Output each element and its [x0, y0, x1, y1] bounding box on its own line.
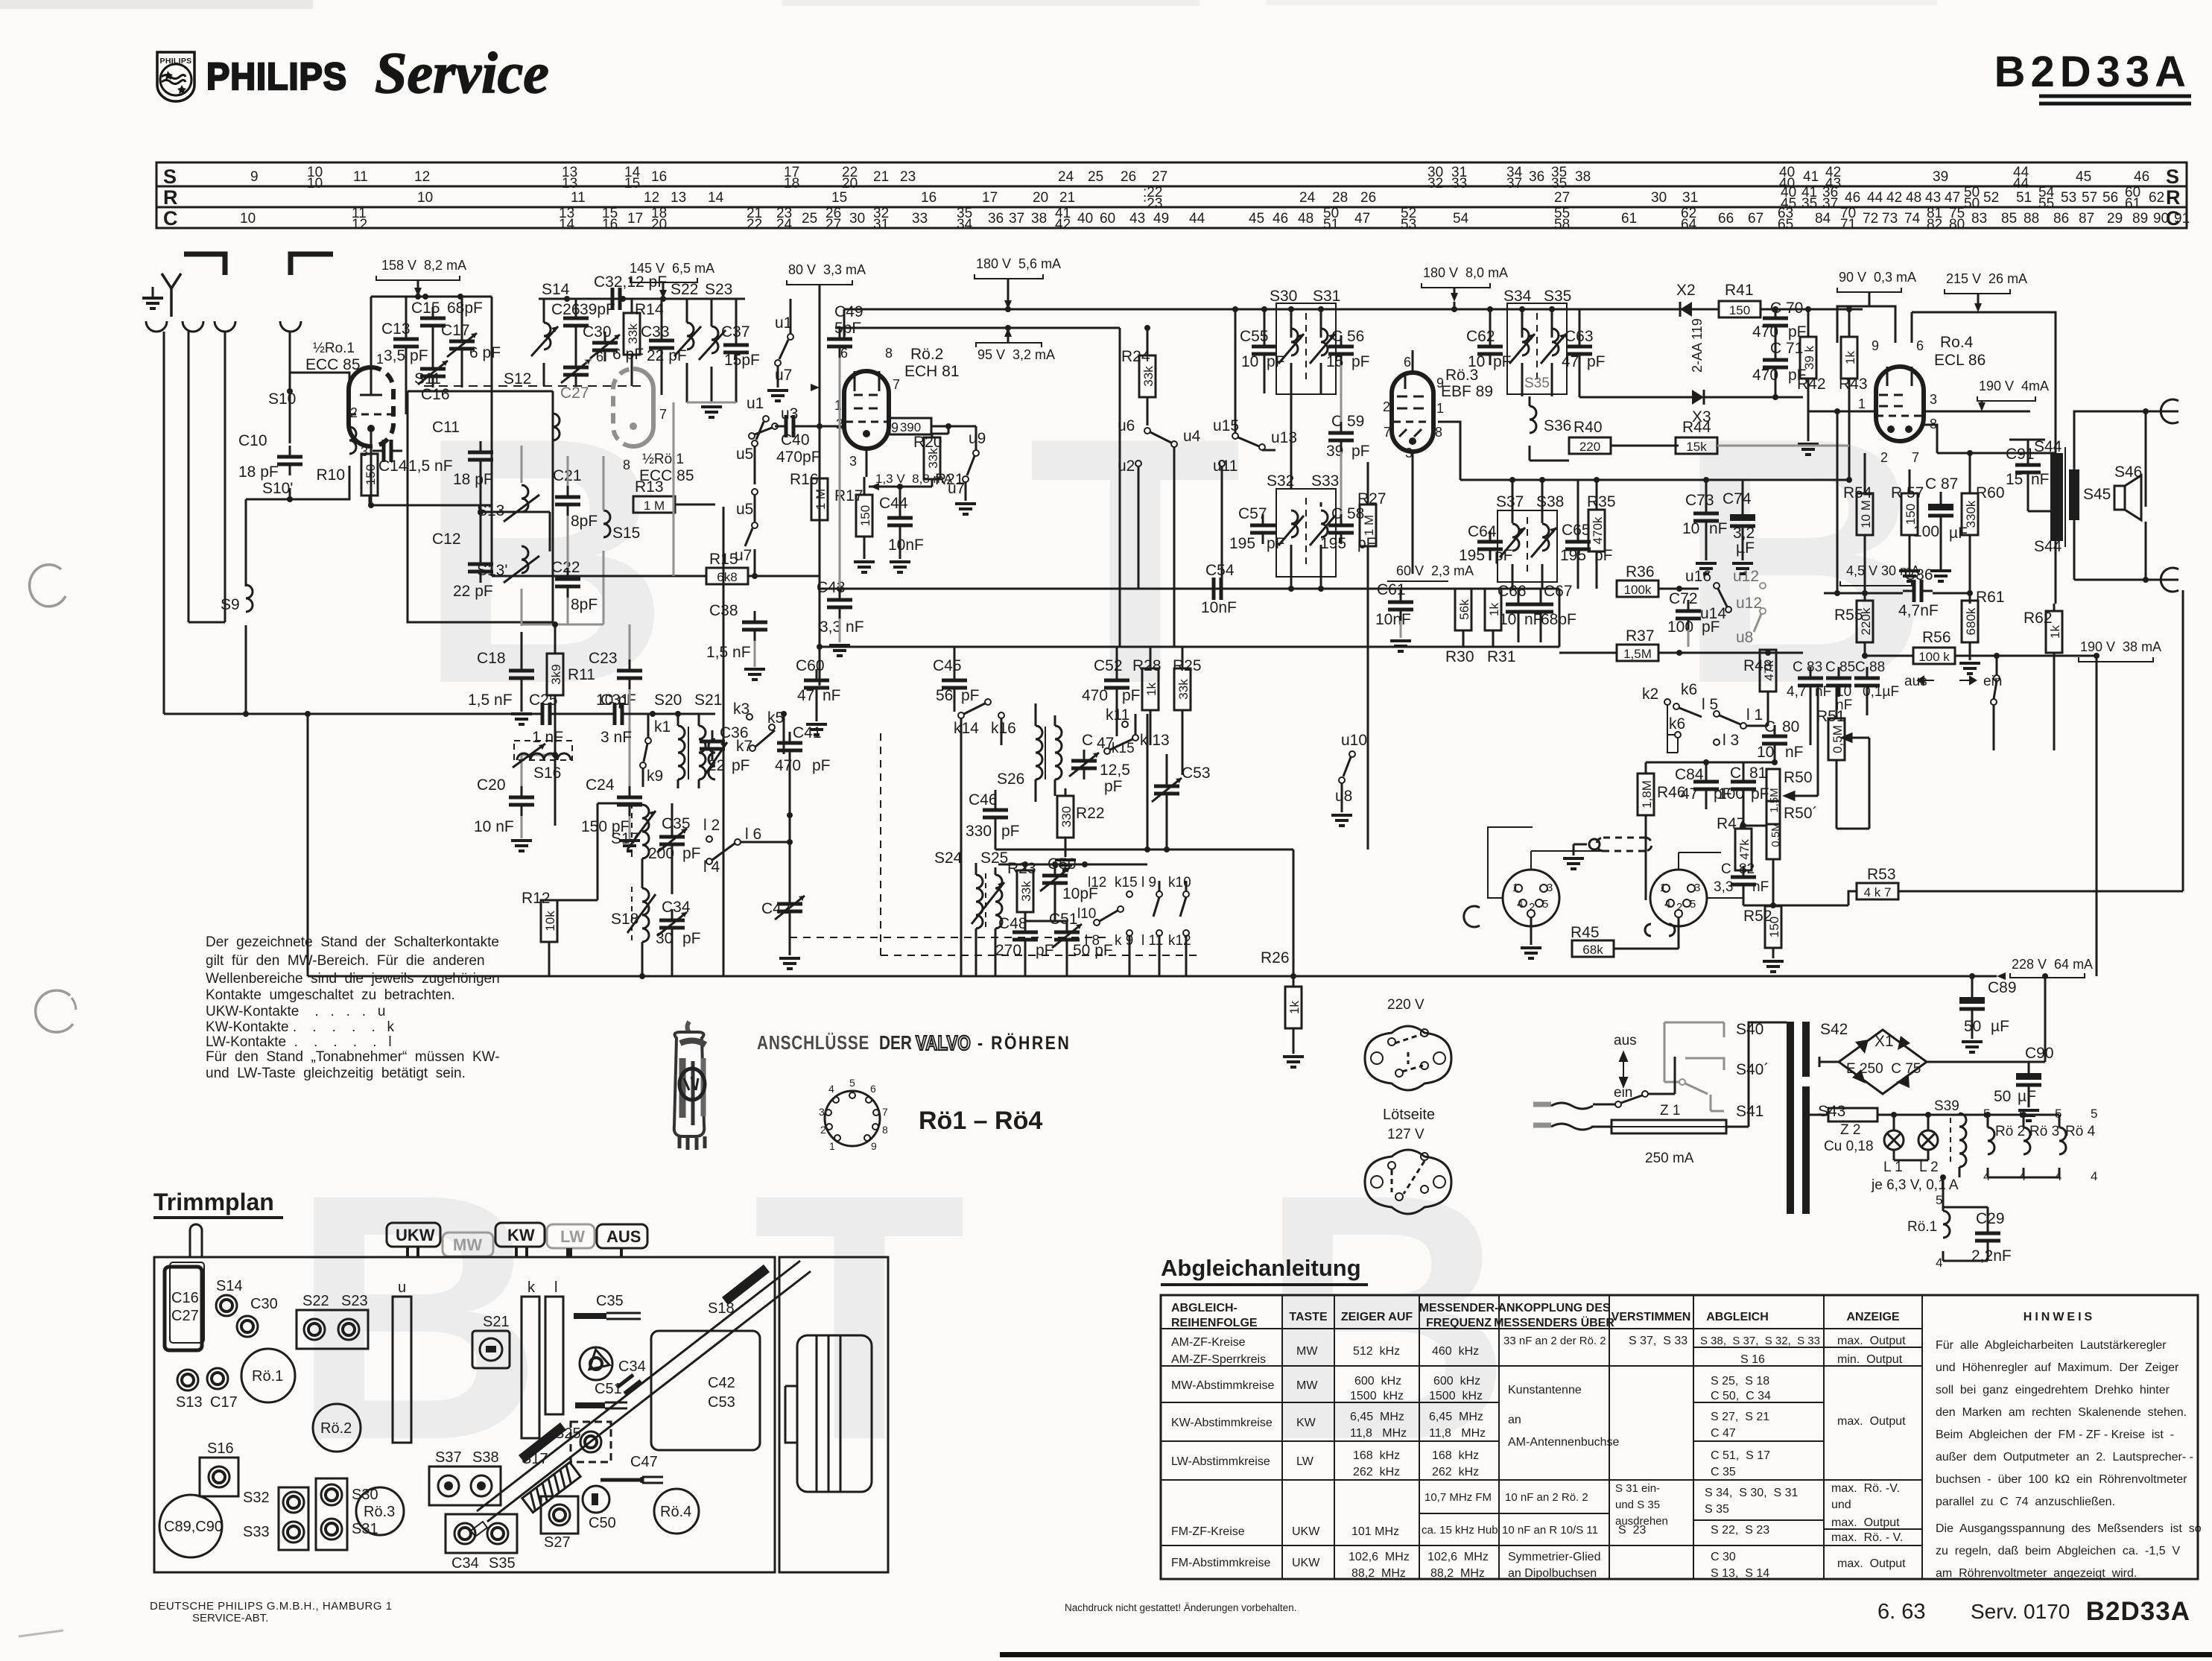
resistor R17 150	[856, 495, 872, 537]
svg-text:C89,C90: C89,C90	[164, 1519, 223, 1535]
capacitor C23	[617, 659, 642, 689]
svg-text:0,5M: 0,5M	[1831, 725, 1845, 753]
capacitor C71	[1763, 349, 1788, 379]
svg-text:195: 195	[1320, 535, 1346, 552]
svg-text:R30: R30	[1445, 648, 1474, 665]
svg-text:3,3: 3,3	[1714, 879, 1733, 895]
capacitor C51 50pF	[1052, 921, 1082, 951]
svg-text:33k: 33k	[926, 448, 940, 469]
capacitor C38	[742, 611, 767, 641]
svg-text:l 8: l 8	[1085, 933, 1100, 949]
svg-text:C33: C33	[641, 323, 670, 341]
svg-text:außer dem Outputmeter an 2: außer dem Outputmeter an 2. Lautsprecher…	[1936, 1451, 2193, 1464]
svg-text:84: 84	[1815, 211, 1831, 227]
rail H4	[844, 327, 1120, 329]
svg-text:228 V 64 mA: 228 V 64 mA	[2012, 957, 2093, 972]
svg-text:PHILIPS: PHILIPS	[160, 57, 192, 66]
trimmer C16	[418, 358, 448, 387]
svg-text:MW: MW	[453, 1236, 482, 1254]
svg-text:ZEIGER AUF: ZEIGER AUF	[1341, 1311, 1413, 1323]
resistor R16 1M	[811, 478, 828, 520]
capacitor C16 C27 block	[165, 1267, 202, 1350]
svg-text:S32: S32	[243, 1490, 270, 1506]
svg-text:2: 2	[820, 1124, 826, 1136]
svg-text:SERVICE-ABT.: SERVICE-ABT.	[192, 1612, 268, 1624]
capacitor C46 330pF	[983, 799, 1008, 829]
resistor R47 47k	[1735, 829, 1752, 870]
svg-text:10: 10	[307, 176, 323, 192]
svg-text:u5: u5	[736, 501, 753, 518]
resistor R52 150	[1765, 906, 1781, 948]
pickup dashed capsule	[1597, 838, 1652, 851]
svg-text:8pF: 8pF	[571, 596, 598, 613]
svg-text:FM-ZF-Kreise: FM-ZF-Kreise	[1171, 1525, 1245, 1538]
svg-text:Rö.1: Rö.1	[252, 1368, 283, 1385]
svg-text:R44: R44	[1682, 419, 1711, 436]
svg-text:REIHENFOLGE: REIHENFOLGE	[1171, 1317, 1258, 1329]
capacitor C34/S35 box	[446, 1514, 517, 1553]
svg-text:S39: S39	[1934, 1098, 1959, 1114]
svg-text:47: 47	[1945, 190, 1960, 206]
capacitor C42 variable	[775, 893, 805, 923]
svg-text:8: 8	[885, 346, 893, 361]
svg-text:S 25, S 18: S 25, S 18	[1711, 1375, 1769, 1388]
svg-text:S35: S35	[489, 1555, 516, 1572]
svg-text:C 30: C 30	[1711, 1551, 1736, 1563]
svg-text:28: 28	[1332, 190, 1348, 206]
svg-text:86: 86	[2053, 211, 2069, 227]
svg-text:37: 37	[1822, 196, 1838, 212]
svg-text:82: 82	[1739, 861, 1755, 877]
svg-text:47: 47	[1562, 353, 1579, 370]
svg-text:330k: 330k	[1964, 500, 1978, 528]
capacitor C58	[1328, 514, 1354, 544]
svg-text:64: 64	[1681, 217, 1697, 232]
svg-text:S 23: S 23	[1618, 1524, 1646, 1537]
svg-text:56: 56	[2102, 190, 2118, 206]
coil S13 trimmer coil	[522, 485, 528, 512]
capacitor C64	[1477, 531, 1503, 560]
svg-text:DER: DER	[879, 1032, 912, 1054]
svg-text:S11: S11	[414, 370, 441, 387]
svg-text:S9: S9	[221, 596, 240, 613]
svg-text:µF: µF	[1991, 1018, 2009, 1035]
svg-text:31: 31	[1682, 190, 1698, 206]
svg-text:190 V 38 mA: 190 V 38 mA	[2080, 639, 2161, 654]
svg-text:k6: k6	[1669, 715, 1685, 733]
svg-text:C49: C49	[834, 303, 863, 320]
scan corner mark bottom left	[19, 1630, 63, 1636]
cathode rail	[1837, 592, 1970, 594]
svg-text:127 V: 127 V	[1387, 1127, 1425, 1142]
svg-text:S13: S13	[176, 1394, 203, 1411]
double underline	[2039, 95, 2191, 98]
svg-text:S 38, S 37, S 32, S 33: S 38, S 37, S 32, S 33	[1700, 1335, 1820, 1347]
svg-text:470: 470	[775, 757, 801, 774]
svg-text:200: 200	[648, 845, 674, 862]
node S10 top	[287, 388, 293, 394]
svg-text:Rö.4: Rö.4	[660, 1504, 691, 1520]
svg-text:pF: pF	[732, 757, 750, 774]
resistor R11 3k9	[547, 654, 563, 695]
resistor R41 150	[1719, 301, 1761, 317]
svg-text:C89: C89	[1988, 979, 2017, 996]
svg-text:72: 72	[1863, 211, 1878, 227]
svg-text:min. Output: min. Output	[1837, 1353, 1903, 1366]
resistor R21 33k	[924, 437, 940, 479]
svg-text:S 27, S 21: S 27, S 21	[1711, 1411, 1769, 1423]
svg-text:DEUTSCHE PHILIPS G.M.B.H., HAM: DEUTSCHE PHILIPS G.M.B.H., HAMBURG 1	[150, 1600, 393, 1613]
svg-text:3,3 nF: 3,3 nF	[820, 618, 864, 636]
tube Ro.3 EBF89	[1413, 373, 1433, 452]
primary select wires	[1664, 1022, 1724, 1082]
svg-text:100: 100	[1667, 618, 1693, 636]
resistor R57 150	[1901, 493, 1918, 535]
resistor R45 68k	[1572, 940, 1614, 957]
svg-text:C: C	[1721, 861, 1731, 877]
capacitor C50 10pF	[1040, 864, 1070, 894]
svg-text:12: 12	[414, 169, 430, 185]
resistor R35 470k	[1588, 510, 1605, 551]
svg-text:k5: k5	[767, 709, 784, 727]
svg-text:C42: C42	[761, 900, 790, 917]
svg-text:2: 2	[1880, 450, 1888, 465]
svg-text:C18: C18	[477, 650, 506, 667]
capacitor C29 2,2nF	[1975, 1222, 2000, 1252]
svg-text:und LW-Taste gleichzeitig b: und LW-Taste gleichzeitig betätigt sein.	[206, 1066, 466, 1081]
svg-text:S45: S45	[2083, 486, 2111, 503]
svg-text:Service: Service	[375, 40, 549, 105]
svg-text:PHILIPS: PHILIPS	[206, 56, 347, 98]
svg-text:VALVO: VALVO	[916, 1032, 971, 1055]
svg-text:S 34, S 30, S 31: S 34, S 30, S 31	[1705, 1487, 1799, 1499]
capacitor C60	[804, 669, 829, 699]
svg-text:Rö.3: Rö.3	[364, 1504, 395, 1520]
svg-text:C: C	[1730, 765, 1741, 782]
svg-text:max. Output: max. Output	[1837, 1415, 1906, 1428]
capacitor C59	[1328, 422, 1354, 452]
capacitor C55	[1252, 335, 1277, 365]
capacitor C83	[1798, 667, 1823, 697]
svg-text:12: 12	[644, 190, 659, 206]
big rail below (u-bus)	[820, 646, 1559, 648]
svg-text:u3: u3	[781, 405, 798, 423]
svg-text:Lötseite: Lötseite	[1383, 1107, 1435, 1123]
tube Ro.2 ECH81	[866, 371, 889, 449]
capacitor C72	[1676, 600, 1701, 630]
svg-text:38: 38	[1031, 211, 1047, 227]
svg-text:6: 6	[870, 1083, 876, 1095]
svg-text:C65: C65	[1562, 522, 1591, 539]
svg-text:R43: R43	[1839, 376, 1868, 393]
svg-text:C 35: C 35	[1711, 1466, 1736, 1478]
svg-text:C15: C15	[411, 300, 440, 317]
svg-text:R42: R42	[1797, 376, 1826, 393]
svg-text:MESSENDER-: MESSENDER-	[1419, 1302, 1499, 1314]
svg-text:k14: k14	[954, 720, 979, 737]
svg-text:100: 100	[1718, 785, 1744, 803]
svg-text:S23: S23	[705, 281, 732, 298]
svg-text:C60: C60	[796, 657, 825, 674]
svg-text:33k: 33k	[626, 323, 640, 344]
svg-text:C: C	[163, 207, 178, 230]
svg-text:nF: nF	[1752, 879, 1769, 895]
capacitor C31 series	[603, 703, 633, 725]
svg-text:u7: u7	[948, 480, 965, 497]
svg-text:68pF: 68pF	[1541, 611, 1576, 628]
PHILIPS wordmark	[206, 56, 347, 98]
svg-text:pF: pF	[1788, 323, 1807, 341]
dashed gang line	[424, 385, 641, 387]
resistor R31 1k	[1485, 589, 1501, 630]
svg-text:l 3: l 3	[1723, 732, 1739, 749]
svg-text:100: 100	[1913, 523, 1939, 540]
tube Ro.1 ECC85 half A	[371, 367, 393, 446]
svg-text:180 V 5,6 mA: 180 V 5,6 mA	[976, 256, 1061, 271]
svg-text:145 V 6,5 mA: 145 V 6,5 mA	[630, 261, 714, 276]
resistor R50 potentiometer 1,5M/0,5M	[1766, 769, 1780, 824]
svg-text:33k: 33k	[1176, 679, 1191, 700]
dipole antenna lead left	[184, 254, 225, 275]
svg-text:C52: C52	[1094, 657, 1123, 674]
svg-text:C34: C34	[451, 1555, 479, 1572]
grid rail pin1	[1809, 411, 2030, 413]
svg-text:R47: R47	[1717, 815, 1746, 832]
wire C10 cell	[290, 373, 349, 499]
svg-text:L 1: L 1	[1883, 1159, 1903, 1175]
top rail S14..S23	[539, 298, 745, 300]
svg-text:470pF: 470pF	[776, 449, 821, 466]
svg-text:Cu 0,18: Cu 0,18	[1824, 1139, 1874, 1154]
svg-text:C 85: C 85	[1825, 659, 1855, 675]
svg-text:33 nF an 2 der Rö. 2: 33 nF an 2 der Rö. 2	[1503, 1335, 1606, 1347]
svg-text:pF: pF	[1495, 547, 1513, 564]
svg-text:R14: R14	[635, 301, 664, 318]
svg-text:und: und	[1831, 1499, 1851, 1511]
svg-text:91: 91	[2174, 211, 2190, 227]
wires S30 can verticals	[1291, 309, 1321, 589]
capacitor C86 4,7nF	[1903, 580, 1933, 602]
svg-text:2: 2	[350, 405, 358, 420]
svg-text:1,5 nF: 1,5 nF	[408, 458, 453, 475]
svg-text:27: 27	[1152, 169, 1167, 185]
svg-text:330: 330	[966, 823, 992, 840]
svg-text:l10: l10	[1077, 906, 1096, 922]
svg-text:1: 1	[1436, 401, 1444, 416]
diagonal tuning rod	[471, 1261, 811, 1537]
svg-text:R31: R31	[1487, 648, 1516, 665]
capacitor C80 10nF	[1762, 725, 1787, 755]
node S10'	[287, 496, 293, 502]
speaker S46	[2114, 486, 2125, 510]
header texts	[1171, 1302, 2095, 1329]
svg-text:k1: k1	[654, 718, 671, 735]
svg-text:S34: S34	[1503, 288, 1532, 305]
capacitor C89 C90 circle	[159, 1495, 222, 1557]
svg-text:max. Output: max. Output	[1837, 1335, 1906, 1347]
svg-text:AUS: AUS	[606, 1227, 641, 1246]
svg-text:15k: 15k	[1686, 440, 1707, 454]
svg-text:C 87: C 87	[1925, 475, 1958, 493]
resistor R10	[361, 454, 378, 496]
svg-text:C 47: C 47	[1711, 1427, 1736, 1440]
svg-text:pF: pF	[1104, 778, 1123, 795]
coil S14 variable	[544, 323, 551, 349]
svg-text:R48: R48	[1743, 657, 1772, 674]
svg-text:u9: u9	[969, 430, 986, 447]
svg-text:80: 80	[1949, 217, 1965, 232]
capacitor C21	[555, 486, 580, 516]
svg-text:pF: pF	[1587, 353, 1606, 370]
svg-text:zu regeln, daß beim Abglei: zu regeln, daß beim Abgleichen ca. -1,5 …	[1936, 1545, 2181, 1557]
svg-text:8pF: 8pF	[571, 513, 598, 530]
svg-text:Z 1: Z 1	[1660, 1103, 1680, 1119]
svg-text:k6: k6	[1681, 681, 1697, 698]
capacitor C90 electrolytic	[2028, 1062, 2030, 1073]
svg-text:0,5M: 0,5M	[1769, 822, 1782, 847]
svg-text:am Röhrenvoltmeter angezeigt: am Röhrenvoltmeter angezeigt wird.	[1936, 1567, 2137, 1580]
svg-text:C48: C48	[998, 915, 1027, 932]
capacitor C62	[1477, 335, 1503, 365]
svg-text:600 kHz: 600 kHz	[1433, 1375, 1480, 1388]
resistor R15 6k8 on rail	[492, 575, 706, 578]
svg-text:54: 54	[1453, 211, 1469, 227]
svg-text:FREQUENZ: FREQUENZ	[1426, 1317, 1492, 1329]
svg-text:pF: pF	[682, 845, 701, 862]
resistor R13 1M	[633, 496, 675, 513]
mid rail y=618	[1433, 421, 1445, 423]
capacitor C84 47pF	[1693, 771, 1719, 800]
svg-text:1,5 nF: 1,5 nF	[706, 644, 751, 661]
resistor R62 1k	[2046, 611, 2062, 653]
coil S16 coil box dashed	[514, 741, 572, 760]
resistor R24 33k	[1139, 355, 1156, 397]
svg-text:1k: 1k	[1843, 351, 1857, 364]
svg-text:R55: R55	[1834, 607, 1863, 624]
svg-text:6,45 MHz: 6,45 MHz	[1429, 1411, 1483, 1423]
svg-text:190 V 4mA: 190 V 4mA	[1979, 379, 2049, 393]
svg-text:und S 35: und S 35	[1615, 1499, 1660, 1511]
resistor R46 1,8M	[1638, 773, 1654, 815]
svg-text:47: 47	[797, 687, 814, 704]
capacitor C18	[509, 659, 534, 689]
svg-text:C17: C17	[210, 1394, 238, 1411]
svg-text:S38: S38	[1536, 493, 1564, 510]
svg-text:10 M: 10 M	[1859, 500, 1873, 528]
svg-text:10: 10	[240, 211, 256, 227]
svg-text:Rö 2: Rö 2	[1995, 1124, 2025, 1139]
svg-text:ECL 86: ECL 86	[1934, 352, 1986, 369]
svg-text:S16: S16	[533, 765, 561, 782]
svg-text:S42: S42	[1820, 1021, 1848, 1038]
svg-text:5: 5	[2091, 1107, 2097, 1121]
svg-text:C27: C27	[560, 385, 589, 402]
svg-text:R12: R12	[522, 890, 551, 907]
svg-text:C16: C16	[171, 1290, 199, 1306]
svg-text:R35: R35	[1587, 493, 1616, 510]
svg-text:Kunstantenne: Kunstantenne	[1508, 1384, 1582, 1396]
wires S17/S18	[642, 803, 672, 976]
svg-text:R54: R54	[1843, 484, 1872, 502]
resistor R20 390	[890, 418, 931, 434]
svg-text:S35: S35	[1544, 288, 1571, 305]
svg-text:24: 24	[1058, 169, 1074, 185]
resistor R54 10M	[1857, 493, 1873, 535]
svg-text:47: 47	[1354, 211, 1370, 227]
svg-text:60: 60	[1100, 211, 1115, 227]
wire S11 S12 box	[408, 391, 553, 622]
capacitor C65	[1565, 531, 1591, 560]
svg-text:u10: u10	[1341, 732, 1367, 749]
svg-text:S 13, S 14: S 13, S 14	[1711, 1567, 1769, 1580]
svg-text:11: 11	[353, 169, 368, 185]
capacitor C82 3,3nF	[1731, 866, 1756, 896]
resistor R51 0,5M w/ arrow	[1828, 718, 1845, 760]
svg-text:aus: aus	[1614, 1033, 1637, 1048]
svg-text:S43: S43	[1818, 1103, 1845, 1120]
capacitor C24	[617, 786, 642, 816]
svg-text:X2: X2	[1676, 282, 1696, 299]
svg-text:27: 27	[1554, 190, 1570, 206]
capacitor C45	[942, 669, 967, 699]
svg-text:270: 270	[995, 942, 1021, 959]
svg-text:R26: R26	[1261, 949, 1290, 966]
svg-text:50: 50	[1964, 196, 1980, 212]
svg-text:UKW: UKW	[1292, 1525, 1320, 1538]
svg-text:C 51, S 17: C 51, S 17	[1711, 1449, 1770, 1462]
capacitor C63	[1567, 335, 1592, 365]
svg-text:R: R	[163, 186, 178, 209]
svg-text:B2D33A: B2D33A	[2086, 1597, 2190, 1626]
svg-text:3: 3	[1547, 882, 1553, 894]
svg-text:5pF: 5pF	[834, 320, 861, 337]
svg-text:S12: S12	[504, 370, 531, 387]
svg-text:168 kHz: 168 kHz	[1353, 1449, 1400, 1462]
svg-text:53: 53	[2061, 190, 2076, 206]
svg-text:Für den Stand „Tonabnehmer“: Für den Stand „Tonabnehmer“ müssen KW-	[206, 1049, 500, 1065]
svg-text:C91: C91	[2006, 446, 2035, 463]
svg-text:5: 5	[1690, 898, 1696, 911]
svg-text:C51: C51	[595, 1381, 622, 1397]
svg-text:49: 49	[1153, 211, 1169, 227]
svg-text:44: 44	[1189, 211, 1205, 227]
resistor R60 330k	[1962, 493, 1978, 535]
svg-text:S21: S21	[483, 1314, 510, 1330]
svg-text:C86: C86	[1904, 566, 1933, 583]
capacitor C49	[827, 328, 852, 358]
capacitor C89 electrolytic	[1971, 976, 1974, 997]
svg-text:4: 4	[828, 1083, 834, 1095]
svg-text:C40: C40	[781, 431, 810, 449]
C row numbers	[240, 206, 2190, 232]
svg-text:soll bei ganz eingedrehtem: soll bei ganz eingedrehtem Drehko hinter	[1936, 1384, 2170, 1396]
svg-text:1,5 nF: 1,5 nF	[468, 692, 513, 709]
svg-text:62: 62	[2149, 190, 2164, 206]
svg-text:R22: R22	[1076, 805, 1105, 822]
resistor R26 1k	[1285, 987, 1302, 1028]
svg-text:S10': S10'	[262, 480, 293, 497]
svg-text:50: 50	[1994, 1088, 2011, 1105]
Ro.4 circle	[654, 1489, 699, 1534]
svg-text:Rö1 – Rö4: Rö1 – Rö4	[919, 1107, 1042, 1135]
resistor R44 15k	[1676, 437, 1717, 454]
capacitor C81 to R50 tap	[1743, 825, 1766, 827]
svg-text:83: 83	[1971, 211, 1987, 227]
svg-text:R41: R41	[1725, 282, 1754, 299]
svg-text:41: 41	[1803, 169, 1819, 185]
capacitor C37	[723, 334, 749, 364]
svg-text:LW-Abstimmkreise: LW-Abstimmkreise	[1171, 1455, 1270, 1468]
